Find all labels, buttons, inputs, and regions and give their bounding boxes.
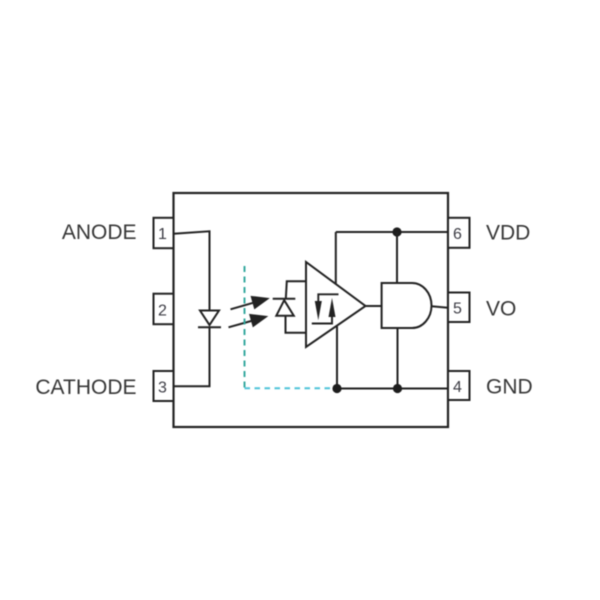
svg-text:1: 1 — [158, 226, 167, 243]
pin 1 box — [154, 218, 174, 248]
node label VO — [486, 298, 516, 321]
output gate U3 — [382, 283, 432, 328]
wire photodiode anode to amplifier — [286, 316, 307, 333]
shield dashed line horizontal — [245, 387, 332, 389]
pin 6 box — [448, 218, 470, 248]
node label GND — [486, 376, 533, 399]
pin 1 number — [158, 226, 167, 243]
GND rail wire to pin 4 — [337, 388, 448, 390]
pin 2 box — [154, 294, 174, 325]
wire amplifier top bias to VDD rail — [335, 232, 337, 284]
svg-text:ANODE: ANODE — [62, 221, 137, 244]
wire gate output to pin 5 — [432, 306, 449, 308]
light emission arrow upper — [231, 296, 269, 309]
node label VDD — [486, 222, 530, 245]
node label CATHODE — [35, 376, 136, 399]
pin 4 box — [448, 371, 470, 400]
wire gate bottom to GND rail — [397, 328, 399, 389]
shield dashed line vertical — [244, 266, 246, 388]
wire LED cathode to pin3 — [174, 327, 210, 386]
svg-text:CATHODE: CATHODE — [35, 376, 136, 399]
light emission arrow lower — [229, 314, 268, 327]
junction dot VDD node — [392, 227, 401, 236]
wire photodiode cathode to amplifier — [286, 281, 306, 299]
junction dot shield to GND — [332, 384, 341, 393]
pin 3 number — [158, 380, 167, 397]
wire VDD to output gate top — [396, 232, 398, 283]
pin 4 number — [453, 379, 462, 396]
hysteresis symbol inside amplifier — [312, 294, 339, 323]
svg-text:GND: GND — [486, 376, 533, 399]
node label ANODE — [62, 221, 137, 244]
svg-text:VO: VO — [486, 298, 516, 321]
svg-text:4: 4 — [453, 379, 462, 396]
LED D1 — [198, 311, 221, 328]
wire amplifier output to gate — [366, 305, 382, 307]
svg-text:2: 2 — [158, 303, 167, 320]
wire amplifier bottom bias to GND rail — [336, 326, 338, 388]
pin 5 number — [453, 301, 462, 318]
VDD rail wire to pin 6 — [336, 231, 448, 233]
junction dot gate to GND — [393, 384, 402, 393]
photodiode D2 — [273, 299, 296, 316]
svg-text:3: 3 — [158, 380, 167, 397]
pin 5 box — [448, 293, 470, 323]
svg-text:5: 5 — [453, 301, 462, 318]
IC body outline U1 — [174, 193, 449, 427]
amplifier U2 triangle — [306, 262, 366, 347]
svg-text:VDD: VDD — [486, 222, 530, 245]
pin 3 box — [154, 371, 174, 401]
pin 2 number — [158, 303, 167, 320]
pin 6 number — [453, 226, 462, 243]
wire pin1 to LED anode — [174, 231, 210, 310]
svg-text:6: 6 — [453, 226, 462, 243]
